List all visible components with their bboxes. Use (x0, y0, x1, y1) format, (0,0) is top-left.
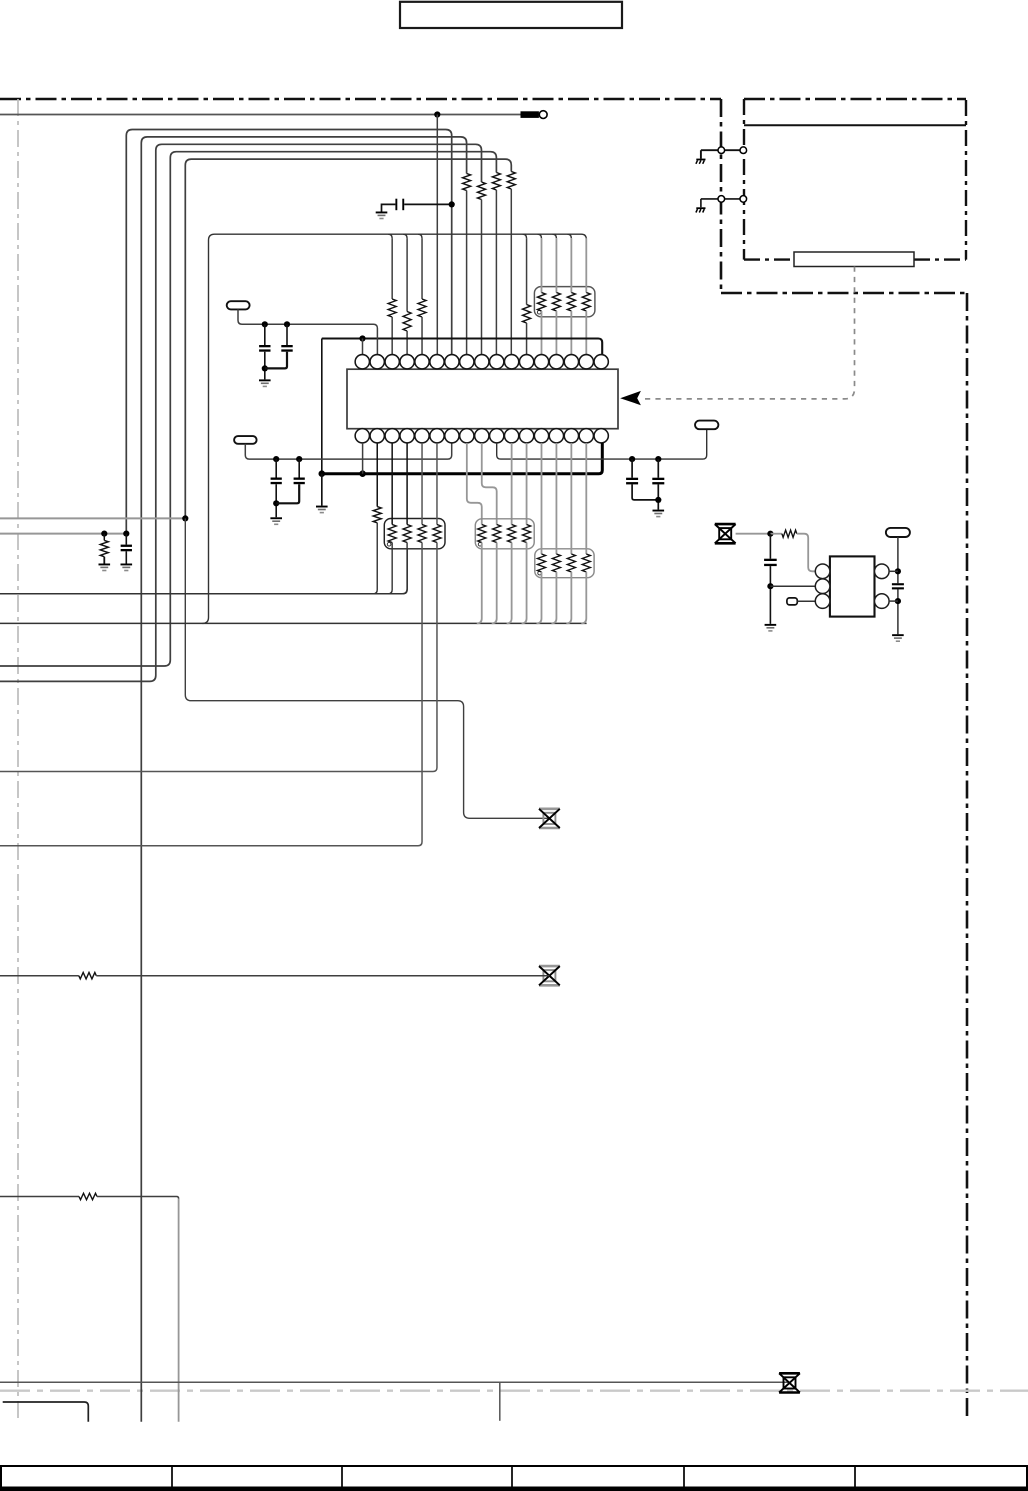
wire thick rail ground lead (321, 474, 323, 506)
wire pin21 stub (406, 443, 408, 525)
wire pin23 stub (436, 443, 438, 525)
wire RN2-1 to rail (388, 543, 392, 594)
bias rail bottom (0, 622, 587, 624)
ground at C-top (376, 212, 388, 214)
wire pin33 stub gray (585, 443, 587, 554)
IC U1 bottom pin circles 18-34 (355, 429, 608, 443)
resistor RN3-4 (523, 525, 531, 543)
connector pin J2a (718, 196, 725, 203)
node VSS at thick rail (319, 470, 326, 477)
wire pin30 stub gray (540, 443, 542, 554)
capacitor C-top right lead (404, 203, 452, 205)
wire tag to pin x3 (797, 600, 815, 602)
node net C at resistor (101, 531, 107, 537)
resistor on w4 (492, 173, 500, 191)
test point bowtie TP3 (779, 1373, 800, 1392)
capacitor C1b (281, 345, 292, 347)
pointer arrowhead (620, 391, 641, 405)
oscillator X1 body (830, 556, 875, 616)
capacitor C-osc leads (769, 534, 771, 624)
resistor R-p12t (523, 305, 531, 324)
connector pin pair 2 wires (701, 199, 740, 207)
wire RN4-1 to rail (536, 572, 541, 623)
wire net G bottom left (3, 1402, 89, 1422)
connector pin J1a (718, 147, 725, 154)
resistor RN2-3 (418, 525, 426, 543)
wire bundle w2 upper (141, 137, 466, 1422)
wire net E to corner (97, 1197, 179, 1199)
capacitor C2b leads (298, 459, 300, 477)
capacitor C2a leads (275, 459, 277, 517)
test point bowtie TP1 (539, 809, 560, 828)
bottom title bar dividers (172, 1466, 855, 1488)
chassis ground at pair 2 (696, 207, 705, 209)
wire bundle w5 upper (185, 159, 511, 518)
wire pin24 jog (467, 443, 482, 525)
bottom title bar row (1, 1466, 1027, 1488)
wire RN2-4 long drop (0, 543, 437, 772)
capacitor CFa leads (632, 459, 658, 500)
border frame dash-dot right vertical (966, 293, 969, 1421)
wire pin16 top lower gray (585, 311, 587, 355)
wire pin18 stub (362, 443, 364, 474)
title box (400, 2, 622, 28)
wire net E with resistor left part (0, 1196, 79, 1198)
wire RN4-2 to rail (551, 572, 556, 623)
wire w4 lower (495, 190, 497, 355)
capacitor C2b bracket (276, 484, 299, 503)
capacitor C1a leads (264, 324, 266, 379)
node TP4 net (767, 531, 773, 537)
wire pin4 top upper (406, 238, 408, 311)
bus branch corner pin13 (537, 234, 541, 238)
wire bundle w4 (0, 152, 496, 666)
bus branch corner pin3 (388, 234, 392, 238)
resistor RN3-1 (478, 525, 486, 543)
wire resistor to pin x1 (797, 534, 816, 572)
ground under C-osc (765, 624, 777, 626)
resistor network RN1 box (534, 287, 595, 317)
wire RN4-3 to rail (566, 572, 571, 623)
resistor R-E (79, 1193, 97, 1199)
capacitor C-left (121, 545, 132, 547)
wire pin4 top lower (406, 331, 408, 355)
connector pin J2b (740, 196, 747, 203)
border frame dash-dot left jog vertical (720, 99, 723, 293)
wire pin31 stub gray (555, 443, 557, 554)
inner dash-dot box top (744, 98, 966, 100)
net label pill L1 (227, 301, 250, 309)
bus branch corner pin12 (523, 234, 527, 238)
wire bundle w3 (0, 144, 482, 681)
resistor R-p5t (418, 299, 426, 317)
inner dash-dot box right (965, 100, 967, 260)
wire RN3-3 to rail (507, 543, 512, 624)
wire pin16 top upper gray (585, 238, 587, 292)
resistor R-D (79, 973, 97, 979)
ground under C2 (270, 517, 282, 519)
wire inside top-right box (744, 124, 966, 126)
capacitor CFa (626, 478, 638, 480)
wire w2 lower (466, 191, 468, 355)
oscillator X1 left pin 3 (815, 594, 830, 609)
node L1 cap1 (262, 321, 268, 327)
net label pill L4 (886, 528, 910, 537)
node L4 pin b (895, 598, 901, 604)
wire w3 lower (481, 200, 483, 355)
wire pin15 top upper gray (570, 238, 572, 292)
wire rail L2 to pin7 (245, 443, 451, 459)
resistor RN4-1 (537, 554, 545, 572)
ground under L4 (892, 634, 904, 636)
inner dash-dot box left (743, 99, 745, 260)
wire pin1 top stub (362, 339, 364, 355)
oscillator X1 left pin 1 (815, 564, 830, 579)
wire RN3-1 to rail (477, 543, 482, 624)
resistor RN3-3 (508, 525, 516, 543)
resistor RN2-2 (403, 525, 411, 543)
resistor R-left bottom lead (103, 557, 105, 564)
resistor on w2 (463, 174, 471, 191)
fold line horizontal gray dash-dot (0, 1390, 1028, 1392)
node L2 cap1 (273, 456, 279, 462)
bus branch corner pin5 (418, 234, 422, 238)
wire RN4-4 to rail (581, 572, 586, 623)
node L4 pin a (895, 568, 901, 574)
resistor R-left (100, 540, 108, 556)
border frame dash-dot mid horizontal (721, 292, 967, 295)
wire pin13 top lower gray (540, 311, 542, 355)
net label pill L2 (234, 436, 257, 444)
resistor on w3 (478, 182, 486, 200)
inner dash-dot box bottom (744, 258, 966, 260)
ground under C1 (259, 379, 271, 381)
wire net F branch drop (499, 1382, 501, 1421)
ground under C-left (121, 564, 133, 566)
test point bowtie TP4 (715, 524, 736, 543)
resistor RN3-2 (493, 525, 501, 543)
capacitor C-left leads (125, 534, 127, 564)
dashed pointer line (642, 267, 855, 399)
wire C-osc to pin x2 (770, 585, 815, 587)
wire L4 to right pin b (889, 600, 898, 602)
wire RN3-2 to rail (492, 543, 497, 624)
plug body (521, 111, 539, 118)
wire pin14 top lower gray (555, 311, 557, 355)
resistor R-left to ground lead (103, 534, 105, 541)
wire net B horizontal gray (0, 517, 185, 519)
bias loop left edge (203, 234, 215, 623)
node VSS pin1 stub (359, 335, 365, 341)
wire pin3 top upper (391, 238, 393, 299)
resistor R-osc (782, 530, 797, 537)
resistor RN4-4 (582, 554, 590, 572)
resistor on w5 (507, 172, 515, 190)
wire net D with resistor left part (0, 975, 79, 977)
bias bus horizontal (215, 234, 587, 292)
capacitor CFb (652, 478, 664, 480)
connector pin J1b (740, 147, 747, 154)
capacitor C1a (259, 345, 270, 347)
wire pin12 top lower (526, 323, 528, 355)
wire net D to TP2 (96, 975, 549, 977)
ground under R-left (99, 564, 111, 566)
wire pin15 top lower gray (570, 311, 572, 355)
wire pin19 stub (376, 443, 378, 507)
node C-top (449, 201, 455, 207)
resistor RN2-1 (388, 525, 396, 543)
wire from pill L1 (238, 309, 377, 354)
bottom black band (0, 1487, 1028, 1491)
wire w5 lower (510, 189, 512, 355)
resistor network RN4 box (535, 549, 594, 578)
wire RN2-2 to rail corner (403, 543, 407, 594)
wire pin12 top upper (526, 238, 528, 304)
capacitor C-osc (764, 559, 777, 561)
node L1 cap2 (284, 321, 290, 327)
wire net C horizontal gray (0, 533, 126, 535)
IC U1 body (347, 369, 618, 429)
capacitor C1b bracket (265, 352, 287, 369)
wire pin20 stub (391, 443, 393, 525)
wire pin27 stub (511, 443, 513, 525)
wire pin3 top lower (391, 317, 393, 355)
capacitor C-top left lead and ground (382, 204, 396, 211)
resistor R-p3t (388, 299, 396, 317)
oscillator X1 right pin 2 (875, 594, 890, 609)
wire VSS left drop (321, 339, 323, 506)
fold line vertical gray dash-dot (17, 99, 19, 1422)
resistor RN1-1 (537, 293, 545, 312)
plug ring (539, 111, 547, 119)
wire pin22 stub (421, 443, 423, 525)
chassis ground at pair 1 (696, 159, 705, 161)
wire L4 to right pin a (889, 570, 898, 572)
oscillator X1 left pin 2 (815, 579, 830, 594)
wire pin5 top upper (421, 238, 423, 299)
IC U1 top pin circles 1-17 (355, 355, 608, 369)
test point bowtie TP2 (539, 966, 560, 985)
resistor RN4-3 (567, 554, 575, 572)
border frame dash-dot top line (0, 98, 721, 101)
wire pin25 jog (482, 443, 497, 525)
resistor RN4-2 (552, 554, 560, 572)
wire net A drop to pin6 top (436, 115, 438, 355)
wire pin28 stub (526, 443, 528, 525)
wire R-p2b to rail (373, 523, 377, 594)
thick VSS rail (322, 443, 603, 474)
wire pin32 stub gray (570, 443, 572, 554)
resistor R-p4t (403, 312, 411, 332)
node thick rail pin18 (359, 470, 366, 477)
capacitor CFb leads (657, 459, 659, 510)
bus branch corner pin14 (552, 234, 556, 238)
resistor RN1-2 (552, 293, 560, 312)
node rail cap Fb (655, 456, 661, 462)
node on net A (434, 111, 440, 117)
resistor R-p2b (373, 507, 381, 523)
bias rail left segment y594 (0, 549, 407, 594)
node net B (182, 515, 188, 521)
wire VSS horizontal (322, 339, 602, 355)
wire pin5 top lower (421, 317, 423, 355)
oscillator X1 right pin 1 (875, 564, 890, 579)
wire net B down and to test point (185, 518, 549, 818)
wire pin13 top upper gray (540, 238, 542, 292)
wire RN3-4 to rail (522, 543, 527, 624)
wire TP4 to node (736, 533, 771, 535)
label box on boundary (794, 252, 914, 267)
node C-osc mid (767, 583, 773, 589)
resistor network RN2 box (384, 519, 445, 549)
node rail cap Fa (629, 456, 635, 462)
capacitor C1b leads (286, 324, 288, 345)
wire net A horizontal (0, 114, 521, 116)
wire bundle w1 (126, 130, 451, 534)
wire net E drop gray (178, 1199, 180, 1422)
wire net F bottom long (0, 1381, 790, 1383)
resistor RN1-4 (582, 293, 590, 312)
wire pin14 top upper gray (555, 238, 557, 292)
wire rail pin25 to pill (497, 429, 707, 459)
node C1 join (262, 365, 268, 371)
node CF join (655, 497, 661, 503)
resistor network RN3 box (475, 519, 534, 549)
connector pin pair 1 wires (701, 150, 740, 158)
ground at VSS left (316, 506, 328, 508)
capacitor C2b (294, 478, 305, 480)
node net C at capacitor (123, 531, 129, 537)
wire node to resistor (770, 533, 782, 535)
tag label small (787, 598, 797, 605)
node L2 cap2 (296, 456, 302, 462)
capacitor C-x (892, 583, 904, 585)
resistor RN2-4 (433, 525, 441, 543)
resistor RN1-3 (567, 293, 575, 312)
capacitor C2a (271, 478, 282, 480)
net label pill L3 (695, 421, 718, 430)
capacitor C-top plates (395, 199, 397, 211)
node C2 join (273, 500, 279, 506)
wire RN2-3 long drop (0, 543, 422, 846)
ground under CF (653, 510, 665, 512)
bus branch corner pin15 (567, 234, 571, 238)
bus branch corner pin4 (403, 234, 407, 238)
wire L4 down (897, 537, 899, 634)
